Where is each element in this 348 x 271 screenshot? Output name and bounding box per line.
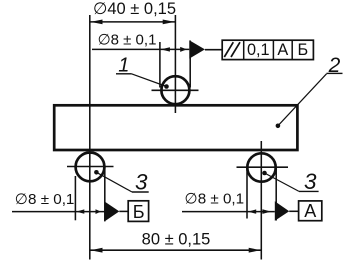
svg-text:∅8 ± 0,1: ∅8 ± 0,1: [185, 190, 245, 207]
dimension D40 line: [90, 20, 176, 25]
wire: leader to datum box A: [289, 210, 298, 212]
datum triangle A: [275, 201, 289, 221]
parallelism symbol: [224, 42, 233, 57]
part label 2 with leader: [276, 54, 343, 128]
datum box B: [128, 201, 148, 222]
wire: top roller horizontal center line: [152, 89, 199, 91]
svg-text:Б: Б: [133, 202, 145, 222]
dimension D8 bottom-left: [12, 167, 105, 221]
right roller circle (part 3): [247, 153, 275, 181]
measured bar (part 2): [54, 105, 297, 150]
wire: right roller vertical center line: [260, 141, 262, 260]
svg-text:80 ± 0,15: 80 ± 0,15: [142, 230, 211, 248]
datum-style leader triangle to tolerance frame: [189, 40, 205, 58]
svg-text:0,1: 0,1: [247, 41, 270, 59]
dimension D8 bottom-right: [182, 168, 276, 221]
datum box A: [299, 201, 322, 221]
svg-text:Б: Б: [298, 41, 309, 59]
left roller circle (part 3): [76, 153, 105, 182]
top roller circle (part 1): [161, 76, 189, 104]
feature control frame // 0,1 A B: [222, 40, 313, 59]
wire: top roller vertical center line: [174, 15, 176, 113]
svg-text:3: 3: [135, 169, 148, 194]
part label 3 left with leader: [94, 169, 149, 194]
part label 1 with leader: [116, 54, 169, 88]
svg-text:∅40 ± 0,15: ∅40 ± 0,15: [93, 0, 176, 18]
wire: right roller horizontal center line: [237, 166, 289, 168]
wire: left roller horizontal center line: [67, 166, 114, 168]
wire: left roller vertical center line: [89, 15, 91, 260]
svg-text:∅8 ± 0,1: ∅8 ± 0,1: [15, 191, 75, 208]
svg-text:А: А: [304, 201, 316, 221]
wire: leader from triangle to tolerance frame: [205, 49, 223, 51]
svg-text:∅8 ± 0,1: ∅8 ± 0,1: [98, 31, 157, 48]
part label 3 right with leader: [262, 169, 318, 194]
svg-text:А: А: [277, 41, 288, 59]
svg-text:3: 3: [304, 169, 317, 194]
wire: leader to datum box B: [119, 210, 128, 212]
svg-text:1: 1: [118, 54, 129, 76]
dimension 80 line: [90, 248, 261, 253]
dimension D8 top line: [92, 41, 190, 88]
datum triangle B: [105, 202, 120, 222]
